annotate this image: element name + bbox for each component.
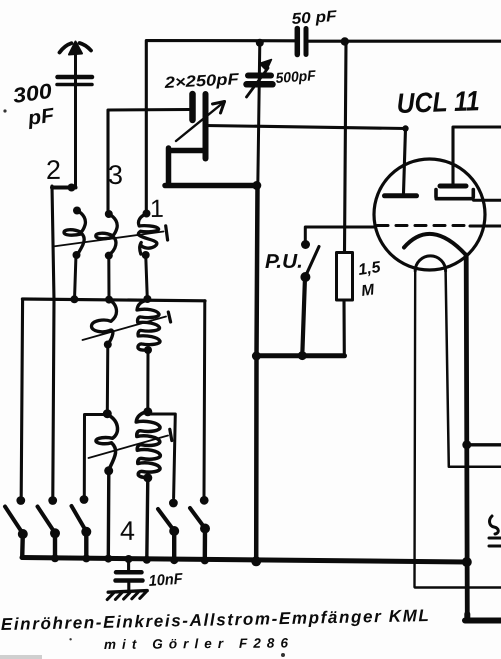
svg-text:M: M <box>360 281 376 300</box>
coil L2 top <box>96 210 117 260</box>
tube U1 envelope <box>374 159 485 270</box>
wires bottom coils to bus <box>107 471 111 558</box>
label 2x250pF <box>163 71 240 92</box>
switch S4 <box>158 499 179 565</box>
resistor R1 1.5M leads <box>344 42 346 355</box>
label 50pF <box>291 8 338 28</box>
variable capacitor 2x250pF plates <box>193 94 206 159</box>
svg-text:Einröhren-Einkreis-Allstrom-Em: Einröhren-Einkreis-Allstrom-Empfänger KM… <box>1 606 429 634</box>
coil L7 bottom-right (4 loops) <box>136 412 160 483</box>
wire main vertical lower thick <box>256 186 257 563</box>
arrow through mid coils <box>83 317 167 341</box>
label 1 <box>150 195 164 223</box>
label 500pF <box>275 68 317 87</box>
svg-text:2: 2 <box>46 155 61 185</box>
wire 50pF to right edge <box>309 40 501 43</box>
pentode lead up and wire to right edge <box>453 127 501 184</box>
label 1,5 M <box>357 259 382 300</box>
thick bus wire y355 <box>256 353 344 358</box>
svg-text:1: 1 <box>150 195 164 223</box>
svg-text:2×250pF: 2×250pF <box>163 71 240 92</box>
label 2 <box>46 155 61 185</box>
svg-text:P.U.: P.U. <box>265 251 303 273</box>
svg-text:1,5: 1,5 <box>357 259 382 279</box>
node dot at 300pF/coil junction <box>68 184 76 192</box>
heater right leg down and out <box>446 271 501 467</box>
label 300pF <box>11 80 56 130</box>
P.U. label <box>265 251 303 273</box>
svg-text:pF: pF <box>26 104 57 130</box>
right edge partial glyph <box>489 516 501 546</box>
svg-text:4: 4 <box>120 516 135 546</box>
variable capacitor 500pF <box>247 60 273 98</box>
node dot K1 + branch <box>462 440 471 449</box>
wire main vertical upper (through 500pF) <box>258 43 260 186</box>
wire antenna down to terminal 2 node <box>74 86 77 188</box>
bus wire y300 <box>22 299 205 301</box>
node dot at 50pF wire / main vertical <box>256 39 264 47</box>
node dot top <box>341 37 349 45</box>
wire from dashes to right edge <box>470 225 501 228</box>
branch right to switch S4 <box>148 414 176 498</box>
label 4 <box>120 516 135 546</box>
left wire down to switch S1 <box>21 299 22 496</box>
paper speckles <box>3 109 285 657</box>
wires mid coils down <box>106 345 110 414</box>
node dot A (junction trimmer/main vertical) <box>252 181 261 190</box>
arrow through bottom coils <box>89 436 169 459</box>
bottom bus wire <box>22 558 467 563</box>
wires coil bottoms to bus <box>75 255 77 300</box>
svg-text:50 pF: 50 pF <box>291 8 338 28</box>
coil L3 top (2 loops) <box>138 210 158 260</box>
coil L4 mid-left <box>91 300 116 349</box>
branch left to switch S3 <box>84 415 107 496</box>
switch S2 <box>38 496 61 562</box>
heater left leg down and out <box>415 271 501 588</box>
thick hook wire below trimmer to node <box>165 148 257 186</box>
svg-text:UCL 11: UCL 11 <box>396 85 480 119</box>
switch S1 <box>5 496 28 558</box>
P.U. switch <box>301 240 310 249</box>
svg-text:300: 300 <box>11 80 53 108</box>
capacitor C 50pF <box>297 29 306 55</box>
svg-text:500pF: 500pF <box>275 68 317 87</box>
triode anode bar <box>385 193 417 198</box>
heater loop <box>415 256 445 271</box>
label UCL11 <box>396 85 480 119</box>
caption line 1 <box>1 606 429 634</box>
bottom right thick corner to edge <box>465 614 501 621</box>
label 3 <box>108 160 123 190</box>
wire 2 down to switch S2 <box>52 186 54 496</box>
dashed separator line <box>377 224 470 227</box>
screen bracket <box>436 190 473 199</box>
svg-text:mit Görler F286: mit Görler F286 <box>104 635 289 652</box>
switch S5 <box>190 496 210 565</box>
caption line 2 <box>104 635 289 652</box>
cathode arc (frown) <box>404 234 466 255</box>
ground <box>107 591 147 600</box>
node dots row 413 <box>103 409 112 418</box>
capacitor C 300pF <box>57 71 92 91</box>
anode wire to right edge <box>474 199 501 202</box>
switch S3 <box>72 495 92 562</box>
arrow through top coils <box>53 232 164 247</box>
capacitor 10nF <box>116 559 143 591</box>
antenna <box>60 42 92 76</box>
P.U. top wire to tube <box>305 227 375 242</box>
svg-text:10nF: 10nF <box>148 571 184 590</box>
coil L1 top <box>64 207 85 260</box>
coil L5 mid-right (3 loops) <box>137 300 160 354</box>
wire terminal-2 horizontal <box>52 186 76 190</box>
wire 3: corner to trimmer <box>108 110 189 215</box>
arrow of 2x250pF <box>176 102 225 142</box>
wire grid: trimmer plate to tube <box>205 126 406 194</box>
right wire down to switch S5 <box>203 301 207 496</box>
wire 1: vertical and top horizontal to 50pF <box>146 41 294 214</box>
svg-text:3: 3 <box>108 160 123 190</box>
resistor R1 1.5M body <box>337 253 353 301</box>
coil L6 bottom-left <box>96 415 118 476</box>
pentode anode bar <box>440 184 466 189</box>
label 10nF <box>148 571 184 590</box>
cathode thick line down <box>466 255 467 617</box>
